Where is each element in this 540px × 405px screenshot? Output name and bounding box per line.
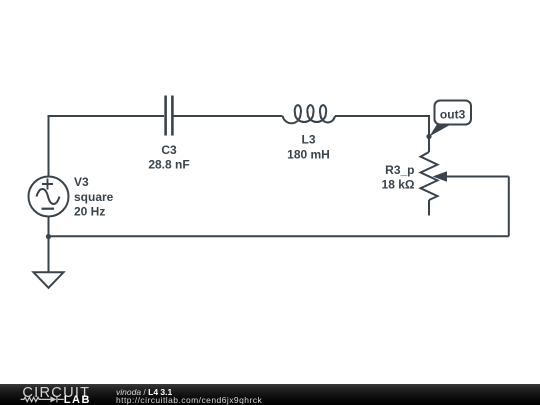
V3 sine wave [37,189,60,204]
wire bottom horizontal [49,235,509,237]
wire right vertical [508,177,510,237]
wire down to node [428,115,430,137]
junction dot bottom-left [46,234,51,239]
svg-text:L3: L3 [301,133,315,147]
svg-text:V3: V3 [74,175,89,189]
footer line 2: url [116,396,262,405]
svg-text:18 kΩ: 18 kΩ [382,177,415,191]
capacitor C3 [166,96,173,136]
voltage source V3 circle [29,177,69,217]
net flag out3 bubble [435,101,472,125]
svg-text:R3_p: R3_p [385,163,414,177]
potentiometer bottom stub [428,200,430,216]
CircuitLab logo [0,384,100,405]
ground [34,272,64,288]
inductor L3 [283,105,335,123]
V3 minus sign [42,208,55,210]
net flag out3 tail [429,124,452,137]
svg-text:square: square [74,190,114,204]
potentiometer R3_p zigzag [421,152,438,200]
wire inductor to out3 corner [335,115,429,117]
wire capacitor to inductor [174,115,283,117]
node dot out3 [426,134,431,139]
wire node to potentiometer [428,137,430,153]
wire top-left horizontal [49,115,165,117]
svg-text:20 Hz: 20 Hz [74,205,105,219]
wire V3 bottom to ground [48,217,50,273]
footer line 1: vinoda / L4 3.1 [116,388,172,397]
footer bar [0,384,540,405]
wire wiper to right [446,176,509,178]
potentiometer wiper arrow [433,171,448,181]
svg-text:28.8 nF: 28.8 nF [148,158,189,172]
svg-text:LAB: LAB [64,394,91,405]
svg-text:C3: C3 [161,143,177,157]
svg-text:out3: out3 [440,107,466,121]
wire left vertical [48,115,50,177]
V3 plus sign [42,179,53,190]
svg-text:180 mH: 180 mH [287,147,330,161]
